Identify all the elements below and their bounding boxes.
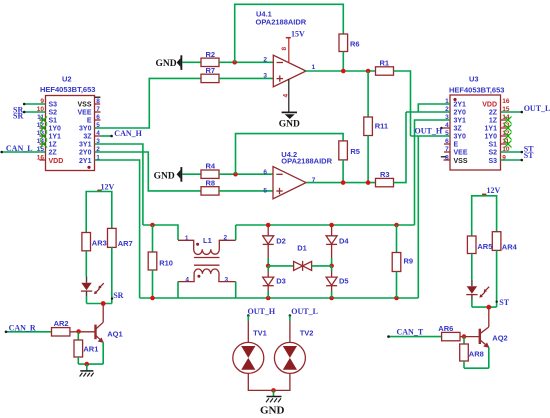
svg-text:AQ2: AQ2 <box>492 333 507 342</box>
wire U3 pin5 to bridge bottom rail <box>417 136 419 298</box>
svg-text:12V: 12V <box>101 182 115 191</box>
svg-text:12V: 12V <box>487 186 501 195</box>
svg-text:R5: R5 <box>350 147 360 156</box>
svg-text:2Y0: 2Y0 <box>454 110 467 117</box>
svg-text:D4: D4 <box>339 236 349 245</box>
svg-text:D3: D3 <box>276 277 286 286</box>
wire bridge bottom rail <box>140 296 419 301</box>
resistor R6 <box>339 34 360 52</box>
resistor R2 <box>201 50 219 67</box>
U2 pin 6 stub <box>95 119 101 121</box>
wire AQ2 emitter to AR8 bottom <box>464 347 489 368</box>
resistor R5 <box>339 141 360 160</box>
svg-text:R4: R4 <box>206 162 216 171</box>
resistor R11 between op-amp outputs <box>364 71 388 183</box>
U3 right pin names <box>482 102 498 166</box>
wire TV bottoms to ground rail <box>248 373 290 392</box>
node SR at LED1 cathode <box>87 291 124 306</box>
U3 pin 7 stub <box>444 151 450 153</box>
svg-text:ST: ST <box>499 298 509 307</box>
svg-text:GND: GND <box>156 59 177 69</box>
svg-text:3Y1: 3Y1 <box>79 142 92 149</box>
resistor AR2 <box>52 319 70 336</box>
svg-text:D5: D5 <box>339 277 349 286</box>
LED LED2 <box>466 280 489 300</box>
transformer L1 <box>178 235 236 284</box>
svg-text:3Z: 3Z <box>454 126 463 133</box>
svg-text:2Y0: 2Y0 <box>79 150 92 157</box>
ground earth below AQ1 <box>80 364 94 376</box>
U2 right pin numbers <box>96 98 100 162</box>
svg-text:3: 3 <box>263 72 267 79</box>
U2 pin 8 VSS stub and bar <box>95 97 101 104</box>
wire AR5 bottom to LED2 <box>471 254 473 281</box>
svg-text:TV2: TV2 <box>300 328 314 337</box>
wire U3 pin1 jog to pin2 net <box>418 104 450 112</box>
wire D4 to mid node <box>329 258 334 268</box>
svg-text:AR8: AR8 <box>469 350 484 359</box>
svg-text:R2: R2 <box>206 50 216 59</box>
svg-text:OUT_L: OUT_L <box>291 307 318 316</box>
ground GND port at R2 input <box>156 55 202 70</box>
U2 left pin names <box>49 102 64 166</box>
resistor AR7 <box>108 228 133 247</box>
svg-text:HEF4053BT,653: HEF4053BT,653 <box>449 86 504 95</box>
svg-text:R7: R7 <box>206 66 216 75</box>
wire U3 pin3 to bridge top rail <box>415 120 451 225</box>
svg-text:1Y1: 1Y1 <box>485 126 498 133</box>
resistor R1 <box>376 59 394 76</box>
svg-text:1Y0: 1Y0 <box>49 126 62 133</box>
wire U2 pin2 to R8 <box>95 152 202 191</box>
svg-text:S3: S3 <box>49 102 58 109</box>
svg-text:VDD: VDD <box>482 102 497 109</box>
wire U4.2 feedback loop top <box>236 134 344 175</box>
resistor R9 <box>392 225 413 298</box>
svg-text:S3: S3 <box>488 158 497 165</box>
svg-text:L1: L1 <box>203 236 212 245</box>
U3 left pin names <box>454 102 468 166</box>
resistor AR4 <box>492 232 517 252</box>
svg-text:1Z: 1Z <box>49 142 58 149</box>
wire R5 bottom to U4.2 output row <box>342 160 344 183</box>
multiplexer U2 HEF4053BT,653 body <box>40 75 95 171</box>
wire AR4 bottom to ST node <box>496 250 498 307</box>
svg-text:HEF4053BT,653: HEF4053BT,653 <box>40 85 95 94</box>
TVS diode D1 bidirectional <box>268 244 331 271</box>
op-amp U4.2 OPA2188AIDR <box>263 150 332 199</box>
wire SR to U2 pin 10 <box>13 111 46 121</box>
svg-text:OPA2188AIDR: OPA2188AIDR <box>256 18 307 27</box>
wire CAN_L to U2 pin 15 <box>0 144 45 153</box>
svg-text:3Y1: 3Y1 <box>454 118 467 125</box>
diode D2 <box>263 225 286 258</box>
ground GND earth below TV tubes <box>260 390 285 416</box>
svg-text:S2: S2 <box>488 150 497 157</box>
wire U2 pin3 down to R10 node <box>95 144 143 225</box>
svg-text:GND: GND <box>260 405 285 417</box>
wire R3 to U3 pins 1-2 column <box>394 112 407 183</box>
resistor R7 <box>201 66 219 83</box>
svg-text:D2: D2 <box>276 236 286 245</box>
svg-text:AR1: AR1 <box>83 345 98 354</box>
node OUT_H stub above TV1 <box>247 307 276 342</box>
wire AR6 to AQ2 base with junction <box>460 334 479 339</box>
transistor AQ1 <box>96 304 123 343</box>
svg-text:3: 3 <box>225 277 229 284</box>
U3 right pin numbers <box>502 98 510 162</box>
svg-text:R11: R11 <box>375 122 388 131</box>
U2 pin 7 stub <box>95 111 101 113</box>
wire 12V rail to AR5 and AR4 <box>472 196 497 236</box>
resistor R3 <box>376 170 394 187</box>
U3 pin 6 stub <box>444 143 450 145</box>
svg-text:8: 8 <box>281 47 288 51</box>
resistor AR5 <box>467 236 492 254</box>
resistor R10 <box>148 225 173 298</box>
svg-text:ST: ST <box>524 151 534 160</box>
node ST at LED2 cathode <box>472 298 510 309</box>
svg-text:AR7: AR7 <box>118 239 133 248</box>
svg-text:R10: R10 <box>159 259 173 268</box>
svg-text:U2: U2 <box>62 75 72 84</box>
svg-text:3Z: 3Z <box>83 134 92 141</box>
node CAN_H stub on U2 pin 4 <box>95 129 143 138</box>
wire AR7 bottom to SR node <box>111 247 113 303</box>
wire R6 bottom to output row <box>342 52 344 72</box>
wire U4.1 feedback loop top <box>235 4 344 62</box>
svg-text:3Y0: 3Y0 <box>79 126 92 133</box>
svg-text:GND: GND <box>279 119 300 129</box>
wire R2 to U4.1 pin2 with junction <box>219 60 273 65</box>
svg-text:R6: R6 <box>350 40 360 49</box>
power 15V port on U4.1 pin 8 <box>281 30 305 63</box>
resistor AR3 <box>82 233 107 251</box>
wire CAN_T to AR6 <box>387 327 441 338</box>
node OUT_L on U3 pin 15 <box>501 104 550 113</box>
wire 12V rail to AR3 and AR7 <box>86 192 112 233</box>
svg-text:1Z: 1Z <box>489 118 498 125</box>
U2 no-connect X pins 11-14 <box>40 117 48 148</box>
svg-text:2Y1: 2Y1 <box>79 158 92 165</box>
svg-text:AR6: AR6 <box>438 324 453 333</box>
ground GND port at R4 input <box>154 167 201 182</box>
svg-text:OUT_H: OUT_H <box>415 126 443 135</box>
svg-text:3Y0: 3Y0 <box>454 134 467 141</box>
resistor R8 <box>201 179 219 196</box>
svg-text:OPA2188AIDR: OPA2188AIDR <box>281 156 332 165</box>
svg-text:S1: S1 <box>488 142 497 149</box>
svg-text:VEE: VEE <box>454 150 468 157</box>
diode D3 <box>263 266 286 298</box>
resistor AR6 <box>438 324 460 341</box>
svg-text:OUT_H: OUT_H <box>248 307 276 316</box>
svg-text:VEE: VEE <box>77 110 91 117</box>
svg-text:OUT_L: OUT_L <box>524 104 550 113</box>
wire R8 to U4.2 pin5 <box>219 190 273 192</box>
wire U4.2 output row <box>306 180 376 185</box>
wire U3 pin5 row <box>411 135 451 137</box>
wire U4.1 output row <box>306 69 376 74</box>
svg-text:15V: 15V <box>291 30 305 39</box>
TVS tube TV1 <box>233 328 267 373</box>
svg-text:AQ1: AQ1 <box>107 329 122 338</box>
svg-text:CAN_T: CAN_T <box>397 327 424 336</box>
svg-text:CAN_R: CAN_R <box>9 324 36 333</box>
svg-text:2Y1: 2Y1 <box>454 102 467 109</box>
wire bridge top rail <box>236 223 415 228</box>
svg-text:CAN_L: CAN_L <box>6 144 33 153</box>
svg-text:2Z: 2Z <box>489 110 498 117</box>
svg-text:D1: D1 <box>297 244 307 253</box>
U2 left pin numbers <box>37 98 45 162</box>
svg-text:4: 4 <box>283 94 290 98</box>
svg-text:S1: S1 <box>49 118 58 125</box>
svg-text:2: 2 <box>263 56 267 63</box>
svg-text:2Z: 2Z <box>49 150 58 157</box>
svg-text:AR2: AR2 <box>54 319 69 328</box>
svg-text:16: 16 <box>502 98 510 105</box>
wire R10 node to L1 pin1 <box>143 223 178 240</box>
multiplexer U3 HEF4053BT,653 body <box>449 75 504 171</box>
wire AR2 to AQ1 base with junction <box>70 329 95 334</box>
svg-text:R8: R8 <box>206 179 216 188</box>
node OUT_H stub on U3 pin 4 <box>415 126 451 135</box>
power 12V port left <box>97 182 114 191</box>
op-amp U4.1 OPA2188AIDR <box>256 10 316 87</box>
node ST on U3 pin 10 <box>501 144 535 153</box>
wire U3 pin2 to R3 column <box>406 111 450 113</box>
wire D2 to mid node <box>266 258 271 268</box>
resistor R4 <box>201 162 219 179</box>
wire CAN_R to AR2 <box>5 324 52 334</box>
svg-text:CAN_H: CAN_H <box>114 129 142 138</box>
U2 right pin names <box>77 102 92 166</box>
svg-text:E: E <box>454 142 459 149</box>
ground GND below U4.1 pin 4 <box>279 79 300 129</box>
svg-text:SR: SR <box>113 291 123 300</box>
wire R7 to U4.1 pin3 <box>219 77 273 79</box>
svg-text:VSS: VSS <box>454 158 468 165</box>
wire L1 pin2 up to top rail <box>235 225 237 240</box>
svg-text:R9: R9 <box>404 257 414 266</box>
power 12V port right <box>482 186 501 196</box>
svg-text:VSS: VSS <box>77 102 91 109</box>
svg-text:AR4: AR4 <box>502 242 518 251</box>
wire U2 pin5 to R7 <box>95 78 202 128</box>
diode D4 <box>326 225 349 258</box>
node OUT_L stub above TV2 <box>289 307 318 342</box>
svg-text:E: E <box>87 118 92 125</box>
svg-text:6: 6 <box>263 169 267 176</box>
svg-text:SR: SR <box>13 112 23 121</box>
svg-text:AR3: AR3 <box>92 238 107 247</box>
svg-text:U3: U3 <box>469 75 479 84</box>
U3 left pin numbers <box>445 98 449 162</box>
svg-text:R1: R1 <box>380 59 390 68</box>
svg-text:1Y1: 1Y1 <box>49 134 62 141</box>
TVS tube TV2 <box>274 328 313 373</box>
LED LED1 <box>81 277 104 297</box>
svg-text:GND: GND <box>154 171 175 181</box>
wire R4 to U4.2 pin6 with junction <box>219 172 273 177</box>
svg-text:4: 4 <box>185 277 189 284</box>
resistor AR1 <box>74 332 98 364</box>
wire SR to U2 pin 9 <box>13 103 46 115</box>
wire R1 to U3 pin5 column <box>394 71 411 136</box>
wire L1 pin4 down to bottom rail <box>177 282 179 299</box>
svg-text:5: 5 <box>263 187 267 194</box>
wire AR3 bottom to LED1 <box>85 251 87 277</box>
wire AQ1 emitter to AR1 bottom <box>78 342 103 366</box>
U3 no-connect X pins 11-14 <box>501 117 512 148</box>
svg-text:1Y0: 1Y0 <box>485 134 498 141</box>
resistor AR8 <box>460 337 484 369</box>
svg-text:AR5: AR5 <box>477 242 492 251</box>
node ST on U3 pin 9 <box>501 151 535 161</box>
svg-text:R3: R3 <box>380 170 390 179</box>
svg-text:TV1: TV1 <box>253 328 267 337</box>
wire L1 pin3 down to bottom rail <box>235 282 237 299</box>
diode D5 <box>326 266 348 298</box>
U3 pin 8 VSS stub and bar <box>441 157 450 160</box>
transistor AQ2 <box>480 307 508 348</box>
svg-text:VDD: VDD <box>49 158 64 165</box>
wire U2 pin1 down to bottom rail <box>95 160 140 298</box>
U2 pin 16 stub <box>40 159 46 161</box>
svg-text:1: 1 <box>312 64 316 71</box>
svg-text:S2: S2 <box>49 110 58 117</box>
